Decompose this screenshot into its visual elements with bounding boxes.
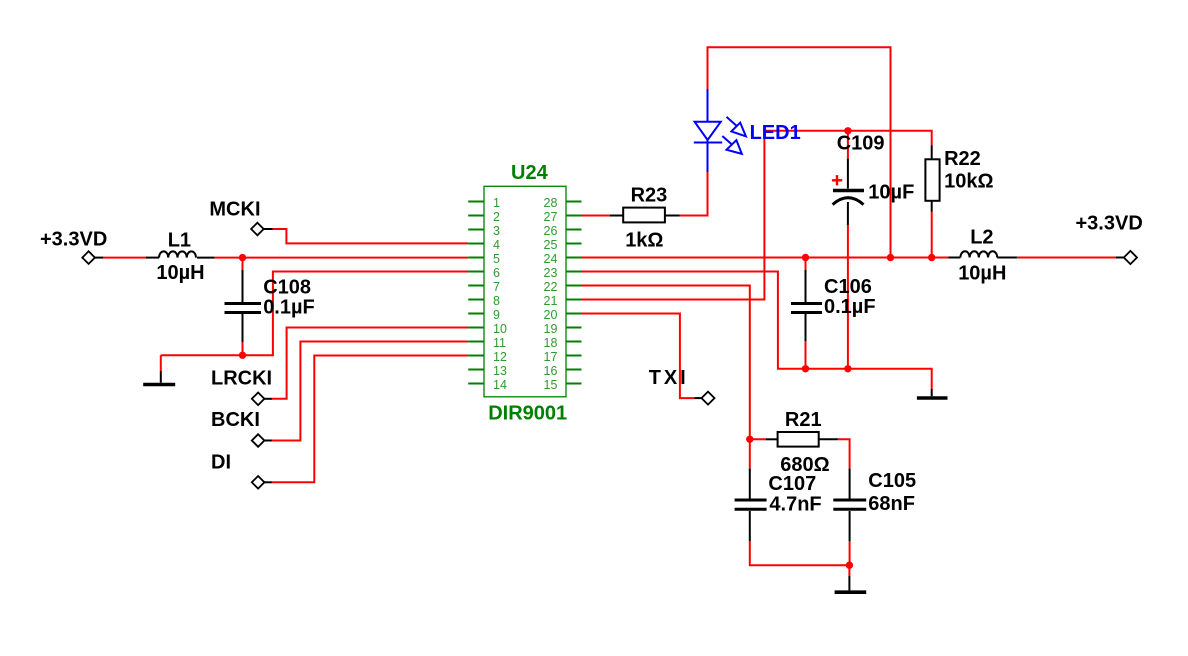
svg-text:MCKI: MCKI xyxy=(209,199,260,221)
svg-text:L1: L1 xyxy=(168,230,191,252)
svg-text:17: 17 xyxy=(544,350,558,364)
svg-text:23: 23 xyxy=(544,266,558,280)
svg-text:21: 21 xyxy=(544,294,558,308)
svg-text:L2: L2 xyxy=(970,227,993,249)
svg-text:C108: C108 xyxy=(263,276,311,298)
svg-text:C109: C109 xyxy=(837,133,885,155)
svg-text:20: 20 xyxy=(544,308,558,322)
svg-text:28: 28 xyxy=(544,196,558,210)
svg-text:R23: R23 xyxy=(631,185,668,207)
svg-text:5: 5 xyxy=(493,252,500,266)
svg-text:C105: C105 xyxy=(868,470,916,492)
svg-text:3: 3 xyxy=(493,224,500,238)
svg-text:C107: C107 xyxy=(768,473,816,495)
svg-text:7: 7 xyxy=(493,280,500,294)
svg-text:22: 22 xyxy=(544,280,558,294)
svg-text:0.1µF: 0.1µF xyxy=(263,296,315,318)
svg-text:15: 15 xyxy=(544,378,558,392)
svg-text:68nF: 68nF xyxy=(868,493,915,515)
svg-text:26: 26 xyxy=(544,224,558,238)
svg-text:14: 14 xyxy=(493,378,507,392)
svg-text:U24: U24 xyxy=(511,162,549,184)
svg-text:18: 18 xyxy=(544,336,558,350)
svg-text:4.7nF: 4.7nF xyxy=(769,493,821,515)
svg-text:C106: C106 xyxy=(824,276,872,298)
svg-text:6: 6 xyxy=(493,266,500,280)
svg-text:+3.3VD: +3.3VD xyxy=(40,228,107,250)
svg-text:19: 19 xyxy=(544,322,558,336)
svg-text:LED1: LED1 xyxy=(750,122,801,144)
svg-text:TXI: TXI xyxy=(649,367,686,389)
svg-text:16: 16 xyxy=(544,364,558,378)
svg-text:DIR9001: DIR9001 xyxy=(488,403,567,425)
svg-text:0.1µF: 0.1µF xyxy=(824,296,876,318)
svg-text:13: 13 xyxy=(493,364,507,378)
svg-text:LRCKI: LRCKI xyxy=(211,367,272,389)
svg-text:25: 25 xyxy=(544,238,558,252)
svg-text:1: 1 xyxy=(493,196,500,210)
svg-text:R21: R21 xyxy=(785,409,822,431)
svg-text:R22: R22 xyxy=(944,148,981,170)
svg-text:10: 10 xyxy=(493,322,507,336)
svg-text:1kΩ: 1kΩ xyxy=(625,229,663,251)
svg-text:BCKI: BCKI xyxy=(211,409,260,431)
svg-text:10µH: 10µH xyxy=(156,262,204,284)
svg-text:11: 11 xyxy=(493,336,506,350)
svg-text:8: 8 xyxy=(493,294,500,308)
svg-text:27: 27 xyxy=(544,210,558,224)
svg-text:24: 24 xyxy=(544,252,558,266)
svg-text:12: 12 xyxy=(493,350,507,364)
svg-text:10µF: 10µF xyxy=(868,182,914,204)
svg-text:4: 4 xyxy=(493,238,500,252)
svg-text:10kΩ: 10kΩ xyxy=(944,171,993,193)
svg-text:DI: DI xyxy=(211,452,231,474)
svg-text:9: 9 xyxy=(493,308,500,322)
svg-text:+3.3VD: +3.3VD xyxy=(1076,213,1143,235)
svg-text:10µH: 10µH xyxy=(958,262,1006,284)
svg-text:2: 2 xyxy=(493,210,500,224)
